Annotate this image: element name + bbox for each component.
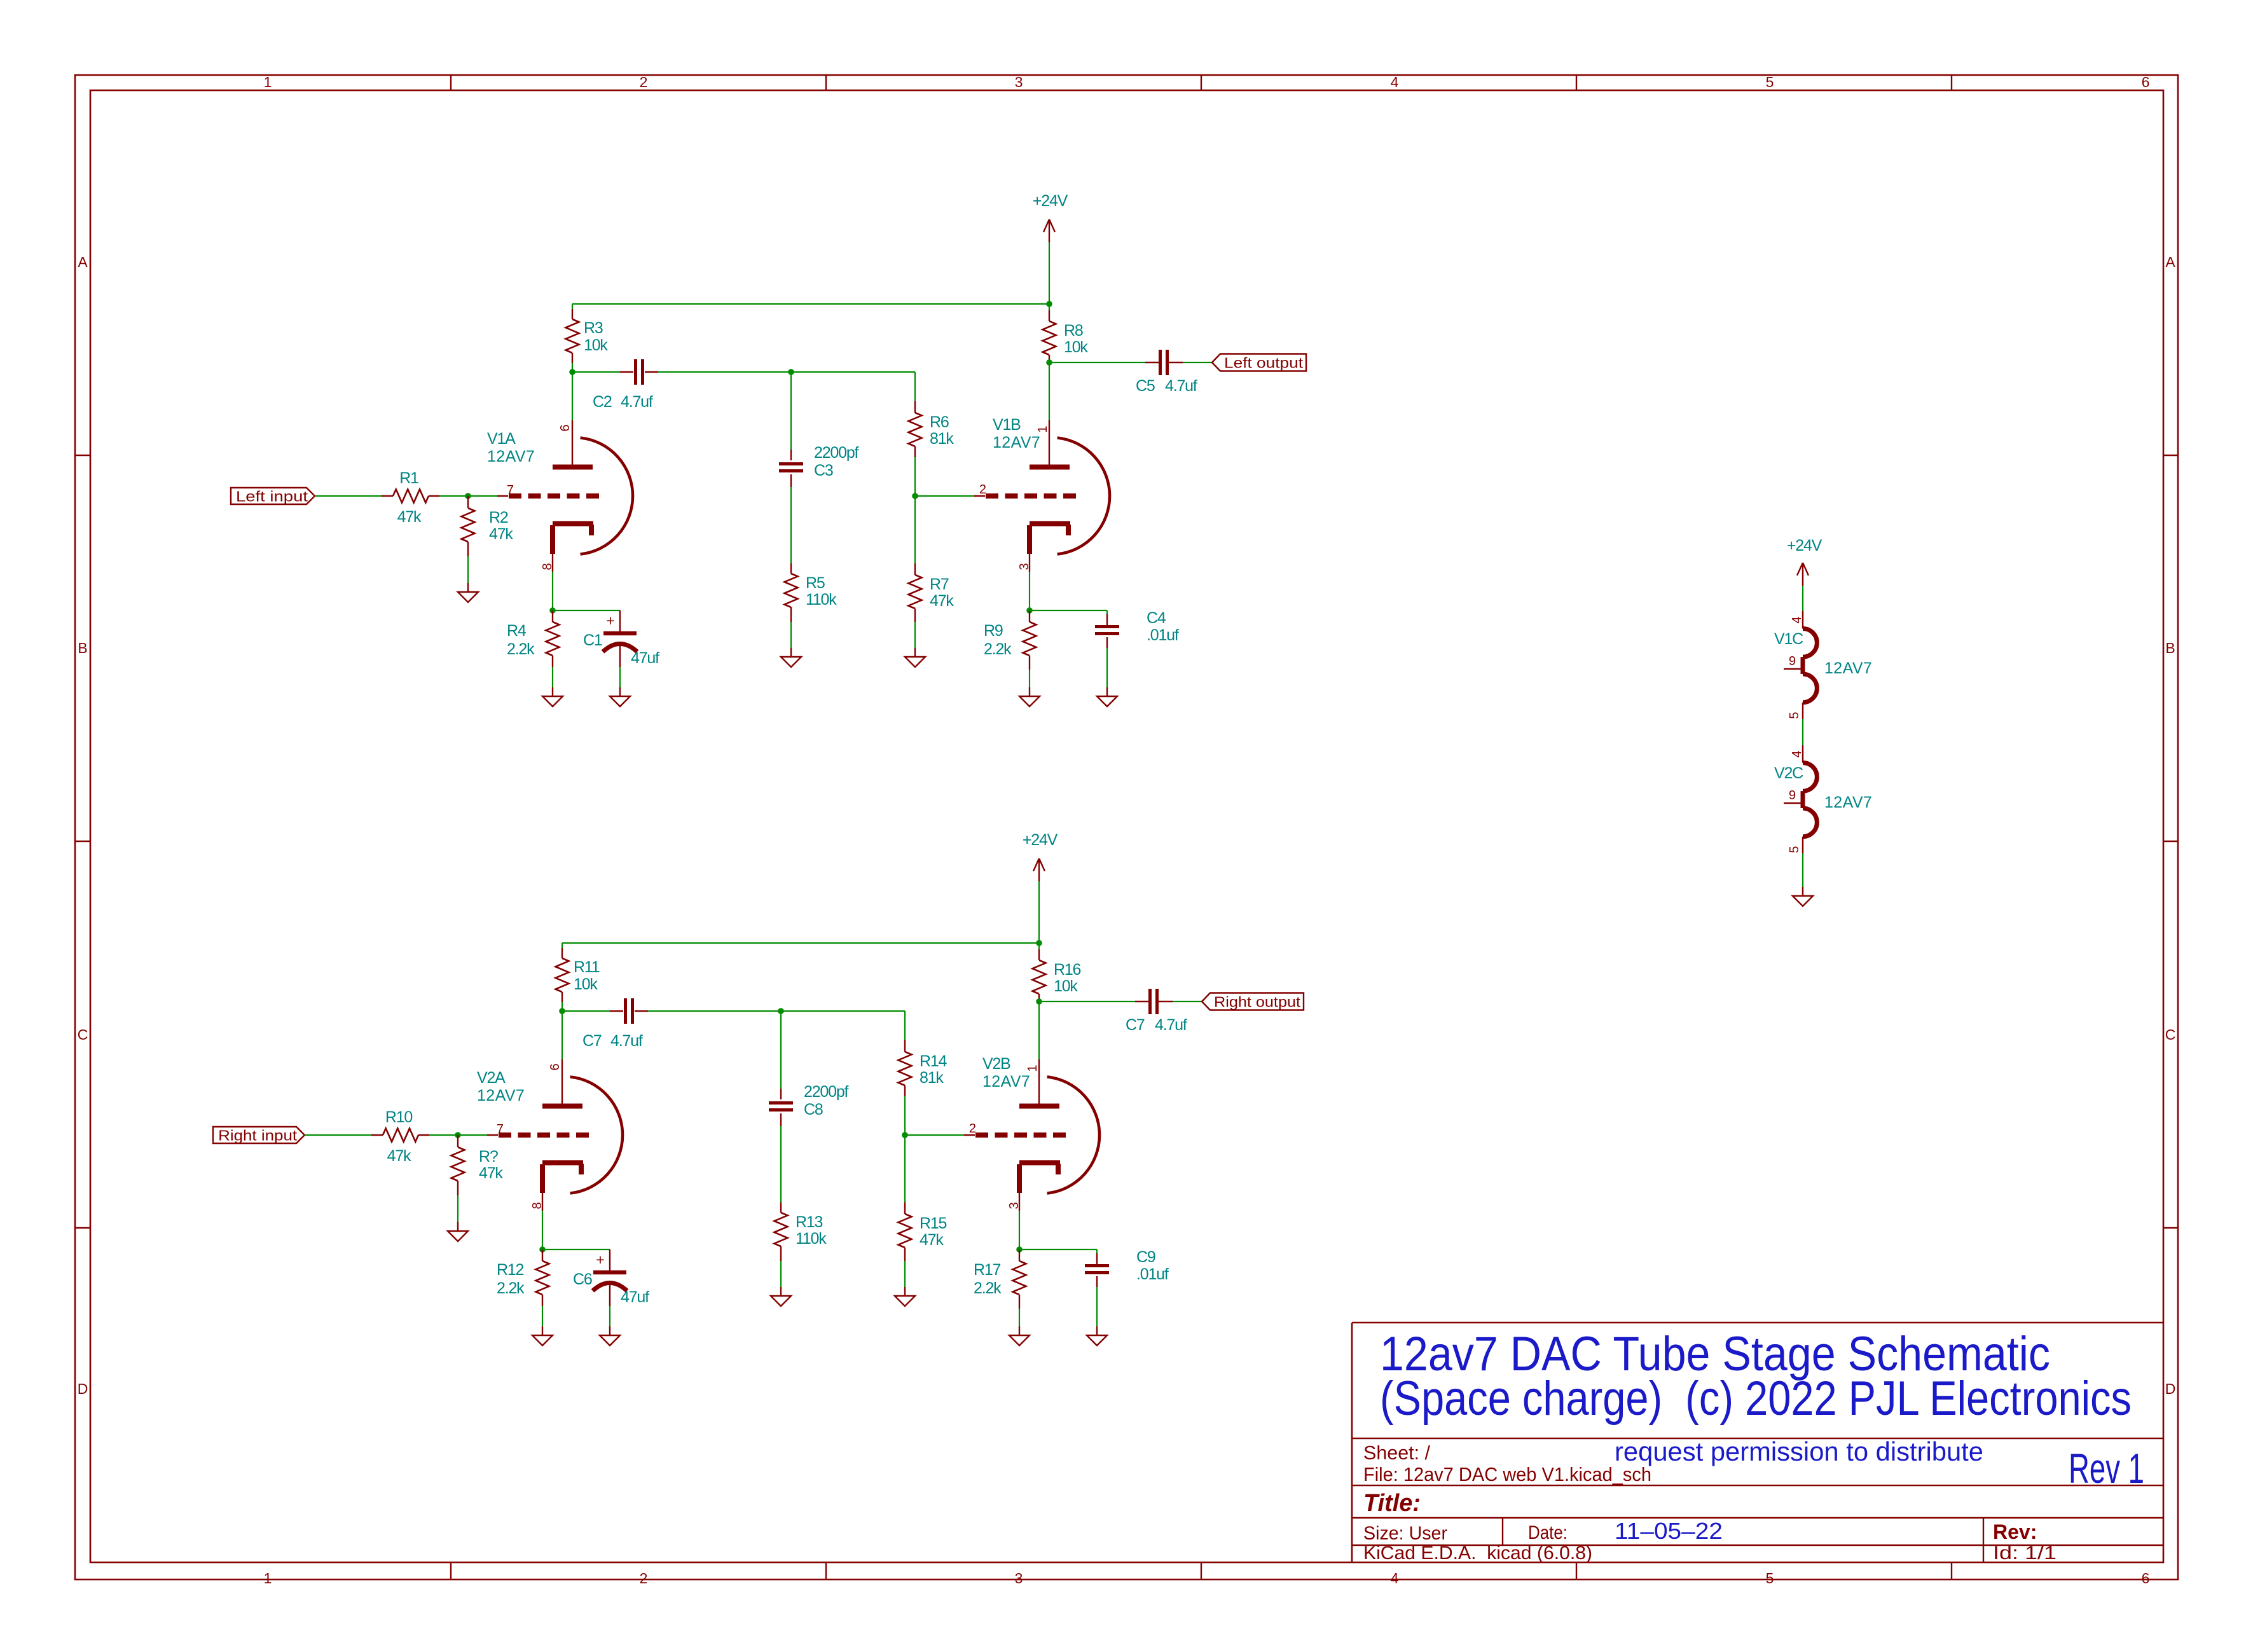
label C2 4.7uf [593,393,653,411]
resistor R16 [1033,943,1046,1002]
svg-text:5: 5 [1766,1570,1774,1587]
label C9 value .01uf [1136,1265,1169,1283]
label R17 ref [974,1261,1001,1279]
capacitor C7 [626,998,633,1024]
wire node to V2A pin 7 [458,1134,487,1136]
svg-text:47k: 47k [489,525,513,543]
svg-text:V1B: V1B [993,416,1021,434]
svg-text:47uf: 47uf [621,1288,649,1306]
label R5 value 110k [806,591,837,609]
pin 4 of V1C [1790,616,1804,623]
svg-text:6: 6 [2142,1570,2150,1587]
wire rail to R3 [572,304,573,309]
svg-text:R5: R5 [806,574,825,592]
label R5 ref [806,574,825,592]
capacitor C6 electrolytic [593,1251,627,1291]
svg-text:R16: R16 [1054,961,1081,979]
label +24V heater [1787,537,1822,554]
wire divider node to R6 [791,372,915,401]
wire C2 to divider node [645,371,791,373]
resistor R? [451,1135,465,1195]
rev 1 text [2069,1445,2144,1492]
svg-text:R8: R8 [1064,322,1083,340]
label R16 ref [1054,961,1081,979]
label R3 value 10k [584,336,608,354]
label V1B value 12AV7 [993,434,1040,451]
label V1B ref [993,416,1021,434]
label C7 4.7uf [582,1032,643,1050]
svg-text:2.2k: 2.2k [974,1279,1002,1297]
label C1 ref [583,631,602,649]
label R7 ref [930,575,949,593]
svg-text:6: 6 [548,1063,562,1070]
svg-text:R7: R7 [930,575,949,593]
svg-text:10k: 10k [574,975,598,993]
wire +24V rail [562,942,1039,944]
label C4 ref [1147,609,1166,627]
title text line 2 [1380,1372,2132,1426]
label R12 ref [497,1261,524,1279]
svg-text:12AV7: 12AV7 [1824,794,1872,811]
label V2B value 12AV7 [982,1073,1030,1091]
svg-text:2.2k: 2.2k [507,640,535,658]
pin 6 of V1A [558,424,572,431]
label R1 ref [399,469,418,487]
label R15 value 47k [920,1231,944,1249]
svg-text:Sheet: /: Sheet: / [1363,1442,1430,1464]
label C6 ref [573,1270,592,1288]
svg-text:12AV7: 12AV7 [982,1073,1030,1091]
svg-text:6: 6 [2142,74,2150,90]
pin 5 of V1C [1788,712,1802,719]
label R9 ref [984,622,1003,640]
svg-text:R14: R14 [920,1052,947,1070]
resistor R1 [382,490,439,503]
ground under R? [448,1222,468,1241]
resistor R11 [556,948,569,1002]
svg-text:V2C: V2C [1774,764,1803,782]
capacitor C1 electrolytic [603,612,637,652]
resistor R6 [909,401,922,457]
triode V2B [964,1059,1099,1211]
svg-text:R17: R17 [974,1261,1001,1279]
label R4 value 2.2k [507,640,535,658]
svg-text:Size: User: Size: User [1363,1523,1447,1544]
triode V2A [487,1059,623,1211]
ground under R7 [905,648,925,667]
wire divider node to R14 [781,1011,905,1040]
label R2 value 47k [489,525,513,543]
svg-text:2.2k: 2.2k [497,1279,525,1297]
Title: field [1363,1490,1421,1517]
pin 1 of V2B [1026,1064,1040,1071]
svg-text:3: 3 [1015,74,1023,90]
wire R? to ground [457,1195,458,1222]
label R4 ref [507,622,527,640]
label V1A ref [487,430,516,448]
node divider junction [778,1008,784,1014]
svg-text:C6: C6 [573,1270,592,1288]
pin 3 of V2B [1007,1202,1021,1209]
svg-text:C: C [2165,1026,2176,1043]
pin 7 of V2A [497,1122,504,1136]
node cathode junction B [1016,1246,1023,1253]
wire V1A cathode to node [552,572,553,610]
wire divider node to C3 [790,372,792,460]
svg-text:Left output: Left output [1224,355,1304,371]
label C8 value 2200pf [804,1083,849,1101]
label V2B ref [982,1055,1010,1073]
svg-text:Date:: Date: [1528,1522,1567,1543]
label V2C ref [1774,764,1803,782]
svg-text:47k: 47k [387,1147,411,1165]
wire R11 to plate node [562,1002,563,1011]
label V1C value 12AV7 [1824,659,1872,677]
ground under C6 [600,1326,620,1346]
label R10 ref [385,1108,413,1126]
triode V1A [497,420,633,572]
wire C8 to R13 [780,1113,782,1202]
svg-text:R3: R3 [584,319,603,337]
svg-text:B: B [78,640,87,656]
pin 7 of V1A [507,483,514,497]
svg-text:V1A: V1A [487,430,516,448]
svg-text:3: 3 [1015,1570,1023,1587]
pin 9 of V1C [1789,654,1796,668]
label R6 ref [930,413,949,431]
svg-text:C: C [78,1026,88,1043]
svg-text:10k: 10k [1064,338,1088,356]
capacitor C4 [1095,627,1119,634]
capacitor C3 [779,464,803,471]
svg-text:110k: 110k [796,1230,827,1248]
label R8 value 10k [1064,338,1088,356]
wire R9 to ground [1029,670,1030,687]
label R11 value 10k [574,975,598,993]
svg-text:4.7uf: 4.7uf [621,393,653,411]
ground under R5 [781,648,801,667]
svg-text:7: 7 [497,1122,504,1136]
svg-text:4: 4 [1790,750,1804,757]
wire R7 to ground [914,622,916,648]
svg-text:request permission to distribu: request permission to distribute [1615,1436,1983,1466]
svg-text:D: D [78,1380,88,1397]
ground under C1 [610,687,630,706]
node grid junction B [902,1132,908,1138]
label R13 value 110k [796,1230,827,1248]
svg-text:2: 2 [640,1570,648,1587]
label C9 ref [1136,1248,1155,1266]
wire rail to R11 [562,943,563,948]
svg-text:Rev 1: Rev 1 [2069,1445,2144,1492]
resistor R5 [785,563,798,622]
label R10 value 47k [387,1147,411,1165]
svg-text:5: 5 [1766,74,1774,90]
svg-text:+24V: +24V [1023,831,1058,849]
svg-text:2: 2 [979,483,986,497]
wire node B to V1B pin 2 [915,495,974,497]
hierarchical label Left output [1212,354,1306,371]
svg-text:81k: 81k [930,430,954,448]
svg-text:C7: C7 [582,1032,602,1050]
node output junction [1046,359,1052,366]
svg-text:C2: C2 [593,393,612,411]
svg-text:4: 4 [1391,1570,1399,1587]
wire V2B cathode to node [1019,1211,1020,1249]
svg-text:C8: C8 [804,1101,823,1119]
svg-text:R15: R15 [920,1215,947,1232]
resistor R3 [566,309,579,363]
pin 8 of V2A [530,1202,544,1209]
wire R17 to ground [1019,1309,1020,1326]
resistor R10 [371,1129,429,1142]
svg-text:D: D [2165,1380,2176,1397]
label V1A value 12AV7 [487,448,535,465]
svg-text:2200pf: 2200pf [804,1083,849,1101]
pin 6 of V2A [548,1063,562,1070]
ground under R15 [895,1287,915,1306]
Rev: field [1993,1520,2037,1543]
wire R2 to ground [467,556,469,583]
svg-text:R10: R10 [385,1108,413,1126]
pin 1 of V1B [1036,425,1050,432]
label +24V [1023,831,1058,849]
svg-text:C1: C1 [583,631,602,649]
svg-text:+24V: +24V [1033,192,1068,210]
ground heater chain [1793,887,1813,906]
label V2A ref [477,1069,506,1087]
wire V2A cathode to node [542,1211,543,1249]
wire C7 to divider node [635,1010,781,1012]
label R14 ref [920,1052,947,1070]
svg-text:R2: R2 [489,509,508,527]
svg-text:47k: 47k [479,1164,503,1182]
svg-text:1: 1 [1036,425,1050,432]
svg-text:7: 7 [507,483,514,497]
node cathode junction A [549,607,556,614]
svg-text:2.2k: 2.2k [984,640,1012,658]
svg-text:4: 4 [1391,74,1399,90]
svg-text:R12: R12 [497,1261,524,1279]
svg-text:Left input: Left input [236,488,308,505]
wire output node to V2B pin 1 [1038,1002,1040,1059]
wire Left input to R1 [315,495,382,497]
svg-text:47k: 47k [397,508,422,526]
svg-text:C5: C5 [1136,377,1155,395]
svg-text:11–05–22: 11–05–22 [1615,1518,1723,1544]
svg-text:C9: C9 [1136,1248,1155,1266]
svg-text:12AV7: 12AV7 [477,1087,525,1105]
wire R1 to grid node [439,495,468,497]
comment request permission [1615,1436,1983,1466]
label R16 value 10k [1054,977,1078,995]
pin 5 of V2C [1788,846,1802,853]
svg-text:+: + [606,612,614,629]
svg-text:R13: R13 [796,1213,823,1231]
node plate junction A [569,369,575,375]
wire C7 to Right output [1157,1001,1202,1002]
capacitor C7 [1150,989,1157,1014]
resistor R13 [775,1202,788,1261]
wire +24V rail [572,303,1049,305]
svg-text:12AV7: 12AV7 [1824,659,1872,677]
label V2A value 12AV7 [477,1087,525,1105]
pin 2 of V2B [969,1122,976,1136]
node grid junction B [912,493,918,499]
wire cathode node to C6 [542,1249,610,1272]
svg-text:C7: C7 [1126,1016,1145,1034]
date field [1528,1522,1567,1543]
label R11 ref [574,958,600,976]
svg-text:1: 1 [264,1570,272,1587]
wire R4 to ground [552,667,553,687]
wire cathode node to C1 [553,610,620,633]
label V2C value 12AV7 [1824,794,1872,811]
heater V1C [1784,611,1817,719]
wire output node to C5 [1049,362,1160,363]
label C3 value 2200pf [814,444,859,462]
node grid junction [465,493,471,499]
svg-text:R?: R? [479,1148,498,1166]
svg-text:B: B [2165,640,2175,656]
wire R15 to ground [904,1261,906,1287]
wire plate node to C2 [572,371,633,373]
wire plate node to V1A pin 6 [572,372,573,420]
svg-text:4.7uf: 4.7uf [1155,1016,1187,1034]
svg-text:110k: 110k [806,591,837,609]
capacitor C8 [769,1103,793,1110]
svg-text:9: 9 [1789,788,1796,802]
node output junction [1036,998,1042,1005]
wire R12 to ground [542,1306,543,1326]
svg-text:81k: 81k [920,1069,944,1087]
wire node B to V2B pin 2 [905,1134,964,1136]
resistor R17 [1013,1249,1026,1309]
svg-text:A: A [78,254,88,270]
svg-text:3: 3 [1007,1202,1021,1209]
svg-text:Right output: Right output [1214,994,1301,1010]
wire Right input to R10 [305,1134,371,1136]
resistor R8 [1043,304,1056,362]
ground under R4 [542,687,563,706]
label C7 4.7uf [1126,1016,1187,1034]
file field [1363,1463,1651,1485]
ground under R2 [458,583,478,602]
pin 4 of V2C [1790,750,1804,757]
label R3 ref [584,319,603,337]
wire output node to C7 [1039,1001,1150,1002]
title text line 1 [1380,1327,2050,1381]
label C5 4.7uf [1136,377,1197,395]
svg-text:1: 1 [264,74,272,90]
svg-text:V2A: V2A [477,1069,506,1087]
capacitor C9 [1085,1266,1109,1273]
node cathode junction B [1026,607,1033,614]
node divider junction [788,369,794,375]
wire C3 to R5 [790,474,792,563]
node cathode junction A [539,1246,546,1253]
label R12 value 2.2k [497,1279,525,1297]
wire C6 to ground [609,1283,610,1326]
svg-text:+: + [596,1251,604,1268]
capacitor C2 [636,359,643,385]
wire plate node to C7 [562,1010,623,1012]
svg-text:4: 4 [1790,616,1804,623]
svg-text:10k: 10k [1054,977,1078,995]
label R9 value 2.2k [984,640,1012,658]
resistor R14 [899,1040,912,1096]
svg-text:47uf: 47uf [631,649,659,667]
kicad version field [1363,1543,1592,1564]
pin 8 of V1A [541,563,555,570]
id field [1993,1543,2057,1564]
label R8 ref [1064,322,1083,340]
power +24V heater [1797,563,1809,611]
resistor R7 [909,496,922,622]
resistor R15 [899,1135,912,1261]
svg-text:V2B: V2B [982,1055,1010,1073]
svg-text:Id: 1/1: Id: 1/1 [1993,1543,2057,1564]
label R13 ref [796,1213,823,1231]
sheet field [1363,1442,1430,1464]
wire R10 to grid node [429,1134,458,1136]
wire divider node to C8 [780,1011,782,1099]
svg-text:C3: C3 [814,462,833,479]
hierarchical label Left input [231,488,315,505]
wire R5 to ground [790,622,792,648]
svg-text:9: 9 [1789,654,1796,668]
label +24V [1033,192,1068,210]
svg-text:.01uf: .01uf [1147,626,1179,644]
svg-text:.01uf: .01uf [1136,1265,1169,1283]
pin 9 of V2C [1789,788,1796,802]
ground under R12 [532,1326,553,1346]
wire R13 to ground [780,1261,782,1287]
svg-text:KiCad E.D.A. kicad (6.0.8): KiCad E.D.A. kicad (6.0.8) [1363,1543,1592,1564]
heater V2C [1784,745,1817,853]
resistor R4 [546,610,560,667]
svg-text:47k: 47k [920,1231,944,1249]
svg-text:File: 12av7 DAC web V1.kicad_s: File: 12av7 DAC web V1.kicad_sch [1363,1463,1651,1485]
wire cathode node B to C9 [1019,1249,1097,1266]
svg-text:2: 2 [969,1122,976,1136]
svg-text:R9: R9 [984,622,1003,640]
node rail junction [1036,940,1042,946]
label C6 value 47uf [621,1288,649,1306]
label R? value 47k [479,1164,503,1182]
svg-text:Right input: Right input [218,1127,298,1144]
svg-text:4.7uf: 4.7uf [610,1032,643,1050]
label C8 ref [804,1101,823,1119]
wire C5 to Left output [1168,362,1212,363]
wire C4 to ground [1106,637,1108,687]
svg-text:5: 5 [1788,846,1802,853]
ground under R17 [1009,1326,1030,1346]
wire R3 to plate node [572,363,573,372]
node grid junction [455,1132,461,1138]
svg-text:10k: 10k [584,336,608,354]
svg-text:R6: R6 [930,413,949,431]
title block [1352,1323,2163,1562]
wire V1B cathode to node [1029,572,1030,610]
wire R14 to grid node B [904,1096,906,1135]
svg-text:47k: 47k [930,592,954,610]
svg-text:A: A [2165,254,2175,270]
svg-text:(Space charge) (c) 2022 PJL E: (Space charge) (c) 2022 PJL Electronics [1380,1372,2132,1426]
pin 2 of V1B [979,483,986,497]
svg-text:8: 8 [541,563,555,570]
node rail junction [1046,301,1052,307]
